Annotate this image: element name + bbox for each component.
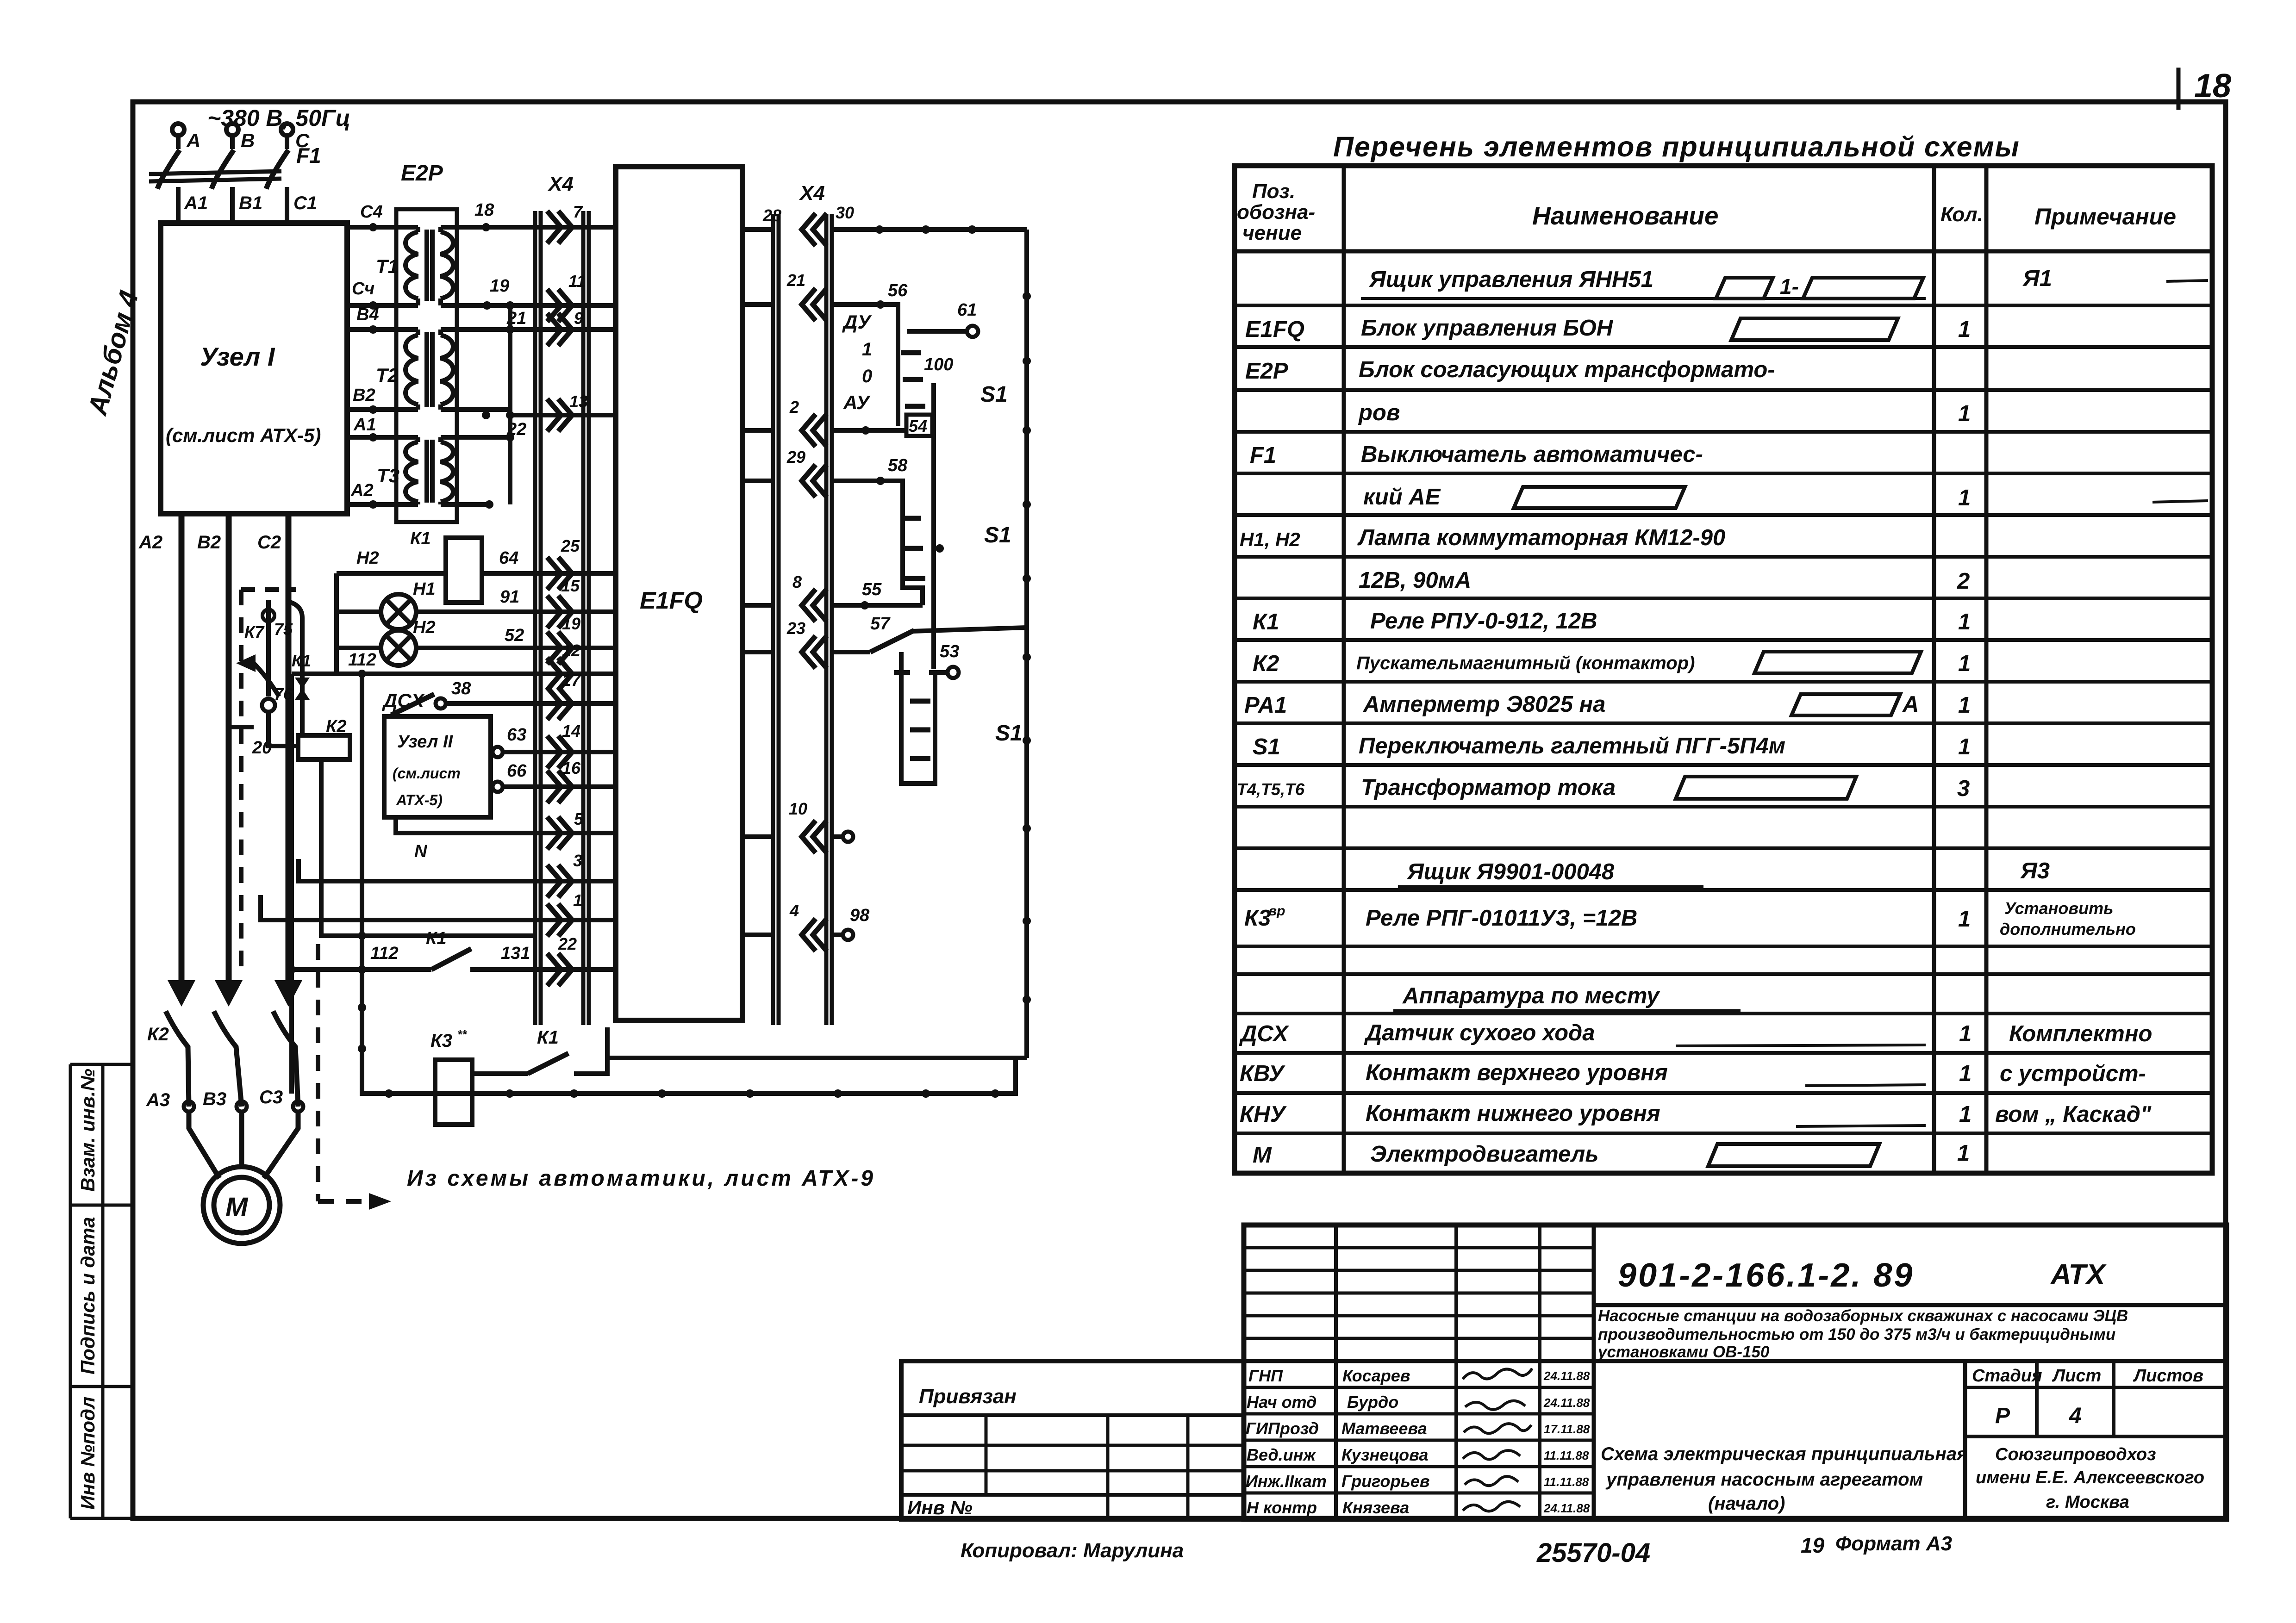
svg-text:**: ** <box>457 1027 468 1041</box>
svg-text:Р: Р <box>1995 1404 2010 1428</box>
svg-text:112: 112 <box>370 944 399 963</box>
table header texts <box>1237 180 2176 244</box>
svg-text:Узел II: Узел II <box>397 732 454 752</box>
breaker F1 linkage bars <box>149 171 281 181</box>
svg-text:К2: К2 <box>147 1024 169 1045</box>
pin 14 chevron / wire 63 <box>547 736 572 768</box>
node 19 <box>483 301 491 310</box>
svg-text:кий АЕ: кий АЕ <box>1363 485 1441 510</box>
node A2 <box>369 500 377 509</box>
terminal 61 <box>907 329 967 334</box>
node 22 <box>482 411 490 419</box>
svg-text:22: 22 <box>558 934 577 953</box>
svg-text:0: 0 <box>862 366 872 386</box>
svg-text:11.11.88: 11.11.88 <box>1544 1449 1589 1462</box>
svg-text:А1: А1 <box>184 193 208 213</box>
svg-text:Перечень элементов принципиа: Перечень элементов принципиальной схемы <box>1333 131 2020 162</box>
S1 group 3 path <box>901 652 935 784</box>
node C4 bottom <box>369 301 377 310</box>
terminal C <box>281 124 293 149</box>
svg-text:Контакт верхнего уровня: Контакт верхнего уровня <box>1366 1060 1668 1085</box>
contactor K2 blade A <box>166 1011 189 1107</box>
svg-text:Кузнецова: Кузнецова <box>1341 1445 1428 1464</box>
junctions on bottom bus <box>385 1089 999 1098</box>
pin 11 chevron <box>547 289 572 322</box>
svg-text:18: 18 <box>474 200 494 220</box>
pin 25 chevron / wire H2-K1-64 <box>547 557 572 590</box>
svg-text:обозна-: обозна- <box>1237 201 1315 224</box>
svg-text:N: N <box>414 842 428 861</box>
svg-text:1-: 1- <box>1780 274 1799 298</box>
pin 7 chevron <box>547 211 572 243</box>
svg-text:Е2Р: Е2Р <box>1245 359 1288 384</box>
svg-text:Союзгипроводхоз: Союзгипроводхоз <box>1995 1445 2156 1464</box>
svg-text:38: 38 <box>451 679 471 698</box>
svg-text:С2: С2 <box>257 532 281 553</box>
svg-text:г. Москва: г. Москва <box>2046 1492 2129 1512</box>
svg-text:М: М <box>225 1192 249 1222</box>
dashed control link vertical <box>239 590 243 972</box>
svg-text:28: 28 <box>762 206 781 225</box>
svg-text:53: 53 <box>940 642 959 661</box>
svg-text:Т4,Т5,Т6: Т4,Т5,Т6 <box>1237 780 1305 799</box>
svg-text:Подпись и дата: Подпись и дата <box>77 1217 99 1374</box>
svg-text:S1: S1 <box>984 523 1011 547</box>
svg-text:18: 18 <box>2194 68 2231 105</box>
pin 12 chevron / wire 112 <box>547 658 572 690</box>
svg-text:1: 1 <box>1958 907 1971 932</box>
block Uzel I <box>161 223 347 514</box>
svg-text:М: М <box>1253 1143 1272 1168</box>
svg-text:S1: S1 <box>1253 734 1280 759</box>
phase wire B2 <box>226 514 232 990</box>
svg-text:Из схемы автоматики, лист: Из схемы автоматики, лист АТХ-9 <box>407 1166 875 1191</box>
wire B1 down to node I <box>230 187 235 223</box>
svg-text:57: 57 <box>870 614 891 634</box>
mechanical link arrow <box>243 663 279 696</box>
svg-text:2: 2 <box>789 398 799 417</box>
coil K2 return wire down <box>321 759 537 936</box>
svg-text:В2: В2 <box>197 532 221 553</box>
svg-text:А2: А2 <box>138 532 162 553</box>
pin 5 chevron / wire N <box>547 817 572 849</box>
lamp H2 <box>381 630 416 665</box>
svg-text:Выключатель автоматичес: Выключатель автоматичес- <box>1361 442 1703 467</box>
stage/sheet header <box>1972 1366 2203 1428</box>
pin 3 chevron / wire 3 <box>547 865 572 897</box>
svg-text:55: 55 <box>862 580 882 599</box>
blank value parallelogram row6 <box>1514 487 1685 508</box>
pin 15 chevron / lamp H1 wire 91 <box>547 596 572 628</box>
svg-text:56: 56 <box>888 281 908 300</box>
svg-text:Аппаратура по месту: Аппаратура по месту <box>1402 983 1660 1008</box>
node B2 <box>369 405 377 414</box>
pin 10 chevron / terminal wire <box>802 821 827 853</box>
svg-text:К1: К1 <box>292 651 311 670</box>
svg-text:112: 112 <box>348 650 376 670</box>
blank value parallelogram row10 <box>1754 652 1921 673</box>
pin 9 chevron <box>547 313 572 346</box>
transformer T3 <box>347 437 510 504</box>
svg-text:Инв №: Инв № <box>907 1497 973 1518</box>
svg-text:16: 16 <box>562 759 581 777</box>
svg-text:1: 1 <box>1957 1141 1970 1166</box>
block E2P outline <box>396 209 457 522</box>
svg-text:13: 13 <box>569 392 588 411</box>
svg-text:15: 15 <box>561 576 580 595</box>
blank value parallelogram row1b <box>1803 278 1923 298</box>
svg-text:75: 75 <box>274 620 293 639</box>
svg-text:Реле РПГ-01011УЗ, =12В: Реле РПГ-01011УЗ, =12В <box>1366 906 1637 931</box>
svg-text:Ящик управления ЯНН51: Ящик управления ЯНН51 <box>1368 267 1653 292</box>
current transformer T6 <box>262 699 275 712</box>
svg-text:А: А <box>186 130 200 151</box>
blank value parallelogram row13 <box>1676 777 1856 799</box>
svg-text:1: 1 <box>1958 609 1971 634</box>
svg-text:Я3: Я3 <box>2020 858 2050 883</box>
svg-text:5: 5 <box>574 809 584 828</box>
pin 16 chevron / wire 66 <box>547 771 572 803</box>
tick mark 20 <box>229 725 254 729</box>
svg-text:Электродвигатель: Электродвигатель <box>1370 1142 1599 1167</box>
svg-text:1: 1 <box>1958 317 1971 342</box>
branch down vertical to bottom bus <box>289 674 294 1094</box>
breaker F1 pole B blade <box>212 150 234 189</box>
svg-text:К2: К2 <box>1253 651 1279 676</box>
svg-text:Косарев: Косарев <box>1342 1366 1410 1385</box>
pin 1 chevron / wire 1 <box>547 904 572 936</box>
pin 17 chevron / sensor DSKh wire 38 <box>547 687 572 720</box>
svg-text:управления насосным агрегато: управления насосным агрегатом <box>1605 1469 1923 1490</box>
svg-text:Сч: Сч <box>352 279 374 298</box>
svg-text:Привязан: Привязан <box>919 1385 1017 1408</box>
svg-text:А1: А1 <box>353 415 376 435</box>
svg-text:24.11.88: 24.11.88 <box>1543 1396 1590 1410</box>
svg-text:чение: чение <box>1242 222 1302 244</box>
node B4 <box>369 325 377 334</box>
lamp H1 <box>381 594 416 629</box>
svg-text:(см.лист: (см.лист <box>393 765 461 782</box>
contact K1 lower <box>472 1071 528 1076</box>
svg-text:Поз.: Поз. <box>1252 180 1295 203</box>
project description <box>1597 1307 2128 1361</box>
small revision grid <box>1334 1225 1338 1361</box>
svg-text:19: 19 <box>1801 1533 1825 1557</box>
svg-text:КНУ: КНУ <box>1240 1102 1287 1127</box>
breaker F1 pole C blade <box>266 150 288 189</box>
svg-text:В1: В1 <box>239 193 262 213</box>
pin 4 chevron / wire 98 <box>802 919 827 951</box>
bottom bus lower with junctions <box>360 1058 1016 1094</box>
svg-text:А2: А2 <box>350 481 374 500</box>
svg-text:1: 1 <box>1958 693 1971 718</box>
table rows text <box>1237 266 2208 1168</box>
node A3 <box>184 1101 194 1112</box>
svg-text:23: 23 <box>786 619 805 638</box>
svg-text:АТХ: АТХ <box>2050 1259 2107 1291</box>
svg-text:29: 29 <box>786 448 805 466</box>
svg-text:Я1: Я1 <box>2022 266 2052 291</box>
motor M <box>203 1167 280 1244</box>
signature table texts <box>1246 1366 1590 1517</box>
terminal A <box>172 124 184 149</box>
svg-text:К1: К1 <box>1253 609 1279 634</box>
blank value parallelogram row1a <box>1716 278 1773 298</box>
svg-text:66: 66 <box>507 761 527 781</box>
contactor K2 blade C <box>273 1011 298 1107</box>
contactor coil K2 <box>268 712 298 746</box>
svg-text:Примечание: Примечание <box>2034 204 2176 230</box>
svg-text:ДСХ: ДСХ <box>1239 1021 1290 1046</box>
node 18 <box>482 223 490 231</box>
right stage columns <box>1963 1361 1967 1519</box>
phase wire C2 <box>286 514 292 990</box>
svg-text:100: 100 <box>924 355 953 374</box>
svg-text:14: 14 <box>562 721 580 740</box>
svg-text:25570-04: 25570-04 <box>1536 1538 1650 1568</box>
svg-text:12: 12 <box>562 641 580 660</box>
blank value parallelogram row22 <box>1708 1144 1879 1166</box>
switch S1 selector DU/AU bracket <box>885 305 898 426</box>
svg-text:63: 63 <box>507 725 526 745</box>
svg-text:ГИПрозд: ГИПрозд <box>1246 1419 1319 1438</box>
svg-text:4: 4 <box>2069 1404 2082 1428</box>
svg-text:21: 21 <box>786 271 805 290</box>
svg-text:ров: ров <box>1358 400 1400 425</box>
wire: right S1 bus vertical <box>1024 230 1029 1058</box>
pin 8 chevron / wire 55 <box>802 589 827 622</box>
svg-text:64: 64 <box>499 548 518 568</box>
relay coil K1 <box>446 538 482 603</box>
contact K1 bowtie on aux line <box>288 602 302 735</box>
pin 21 chevron / wire 56 <box>802 288 827 321</box>
svg-text:В4: В4 <box>356 305 379 324</box>
svg-text:КВУ: КВУ <box>1240 1061 1285 1086</box>
svg-text:Е1FQ: Е1FQ <box>1245 317 1304 342</box>
svg-text:901-2-166.1-2. 89: 901-2-166.1-2. 89 <box>1618 1257 1914 1294</box>
svg-text:1: 1 <box>573 891 582 910</box>
svg-text:Кол.: Кол. <box>1940 203 1983 226</box>
sheet frame border <box>133 102 2226 1518</box>
current transformer T5 <box>262 609 275 622</box>
connector X4 left column <box>535 211 589 1025</box>
svg-text:Н1: Н1 <box>413 579 436 599</box>
attachment box bottom-left <box>901 1361 1244 1519</box>
dashed wire to automation sheet <box>318 944 365 1201</box>
svg-text:Х4: Х4 <box>547 173 574 195</box>
S1 group 2 bracket <box>885 481 923 605</box>
svg-text:1: 1 <box>1958 734 1971 759</box>
svg-text:30: 30 <box>836 203 854 222</box>
svg-text:РА1: РА1 <box>1244 693 1287 718</box>
svg-text:11.11.88: 11.11.88 <box>1544 1475 1589 1489</box>
node A1 <box>369 433 377 442</box>
svg-text:установками ОВ-150: установками ОВ-150 <box>1597 1343 1770 1361</box>
terminal B <box>226 124 238 149</box>
svg-text:Н2: Н2 <box>356 548 379 568</box>
svg-text:7: 7 <box>573 202 583 221</box>
svg-text:Реле РПУ-0-912, 12В: Реле РПУ-0-912, 12В <box>1370 609 1597 634</box>
svg-text:61: 61 <box>957 300 977 320</box>
wire C1 down to node I <box>285 187 289 223</box>
node C4 top <box>369 223 377 231</box>
svg-text:Х4: Х4 <box>799 182 825 205</box>
svg-text:дополнительно: дополнительно <box>2000 920 2136 939</box>
svg-text:В3: В3 <box>203 1089 226 1109</box>
svg-text:Узел I: Узел I <box>200 342 275 371</box>
svg-text:91: 91 <box>500 587 519 607</box>
block Uzel II <box>384 716 491 817</box>
svg-text:Ящик Я9901-00048: Ящик Я9901-00048 <box>1406 859 1615 884</box>
svg-text:Схема электрическая принципиал: Схема электрическая принципиальная <box>1601 1444 1968 1464</box>
svg-text:ГНП: ГНП <box>1248 1366 1283 1385</box>
svg-text:Датчик сухого хода: Датчик сухого хода <box>1364 1020 1595 1045</box>
svg-text:3: 3 <box>573 851 582 870</box>
svg-text:1: 1 <box>1958 401 1971 426</box>
pin 19 chevron / lamp H2 wire 52 <box>547 632 572 664</box>
svg-text:К1: К1 <box>537 1027 559 1048</box>
svg-text:Листов: Листов <box>2133 1366 2203 1386</box>
svg-text:с устройст-: с устройст- <box>2000 1061 2146 1086</box>
svg-text:Нач отд: Нач отд <box>1247 1393 1316 1412</box>
svg-text:2: 2 <box>1957 569 1970 594</box>
selector contact dashes <box>901 353 925 406</box>
svg-text:Пускательмагнитный (контактор: Пускательмагнитный (контактор) <box>1356 653 1695 673</box>
svg-text:24.11.88: 24.11.88 <box>1543 1501 1590 1515</box>
node 21 <box>506 325 514 334</box>
svg-text:Лист: Лист <box>2052 1366 2101 1386</box>
svg-text:Установить: Установить <box>2004 899 2114 918</box>
svg-text:Комплектно: Комплектно <box>2009 1021 2152 1046</box>
svg-text:имени Е.Е. Алексеевского: имени Е.Е. Алексеевского <box>1976 1468 2204 1487</box>
svg-text:10: 10 <box>789 799 807 818</box>
svg-text:(начало): (начало) <box>1708 1493 1785 1514</box>
svg-text:S1: S1 <box>995 721 1023 746</box>
svg-text:58: 58 <box>888 456 908 475</box>
svg-text:F1: F1 <box>1250 443 1276 468</box>
svg-text:Лампа коммутаторная КМ12-9: Лампа коммутаторная КМ12-90 <box>1357 525 1725 550</box>
wire A1 down to node I <box>176 187 181 223</box>
breaker F1 pole A blade <box>157 150 180 189</box>
dashed box top edge <box>241 587 296 592</box>
pin 13 chevron <box>547 399 572 431</box>
table grid <box>1235 166 2212 1173</box>
svg-text:производительностью от 150 до: производительностью от 150 до 375 м3/ч и… <box>1598 1325 2115 1343</box>
svg-text:К3: К3 <box>1244 906 1271 931</box>
svg-text:131: 131 <box>501 944 530 963</box>
svg-text:Стадия: Стадия <box>1972 1366 2042 1386</box>
node B3 <box>237 1101 247 1112</box>
pin 2 chevron / wire 54 <box>802 414 827 447</box>
svg-text:1: 1 <box>1959 1061 1972 1086</box>
svg-text:Блок согласующих трансфо: Блок согласующих трансформато- <box>1359 357 1775 382</box>
svg-text:Бурдо: Бурдо <box>1347 1393 1398 1412</box>
sheet title <box>1601 1444 1968 1514</box>
svg-text:Т3: Т3 <box>377 465 399 486</box>
signatures squiggles <box>1463 1368 1532 1511</box>
svg-text:К3: К3 <box>430 1031 452 1051</box>
contact blade 57 <box>870 630 914 652</box>
junctions on wire 30 <box>875 225 884 234</box>
svg-text:Вед.инж: Вед.инж <box>1247 1445 1316 1464</box>
contactor K2 blade B <box>214 1011 242 1107</box>
connector X4 right column <box>773 214 832 1025</box>
svg-text:Формат А3: Формат А3 <box>1835 1532 1952 1555</box>
svg-text:24.11.88: 24.11.88 <box>1543 1369 1590 1383</box>
svg-text:А: А <box>1902 692 1919 717</box>
svg-text:25: 25 <box>561 536 580 555</box>
motor feeder converging wires <box>189 1112 219 1178</box>
svg-text:11: 11 <box>568 272 586 291</box>
svg-text:С3: С3 <box>259 1087 283 1107</box>
svg-text:54: 54 <box>909 417 927 435</box>
pin 28/30 chevron wire top <box>802 213 827 246</box>
svg-text:8: 8 <box>792 572 802 591</box>
svg-text:3: 3 <box>1957 776 1970 801</box>
secondary bus vertical <box>508 305 512 504</box>
phase arrowheads <box>168 980 302 1007</box>
svg-text:Е1FQ: Е1FQ <box>640 587 703 614</box>
blank value parallelogram row11 <box>1791 694 1900 715</box>
transformer T2 <box>347 330 616 415</box>
svg-text:Князева: Князева <box>1342 1498 1409 1517</box>
svg-text:1: 1 <box>862 339 872 360</box>
page number 18 top right <box>2178 68 2231 110</box>
pin 23 chevron / wire 57 <box>802 636 827 668</box>
junctions on secondary bus <box>506 411 514 419</box>
svg-text:вом „ Каскад": вом „ Каскад" <box>1995 1102 2152 1127</box>
svg-text:76: 76 <box>274 684 293 703</box>
svg-text:4: 4 <box>789 901 799 920</box>
svg-text:1: 1 <box>1959 1102 1972 1127</box>
svg-text:Копировал: Марулина: Копировал: Марулина <box>961 1539 1184 1562</box>
svg-text:Т1: Т1 <box>376 255 399 277</box>
contact K1 on wire 131 <box>431 949 471 970</box>
svg-text:С4: С4 <box>360 202 383 222</box>
pin 29 chevron / wire 58 <box>802 465 827 497</box>
junction on wire 131 <box>287 965 296 974</box>
svg-text:F1: F1 <box>296 143 321 168</box>
svg-text:9: 9 <box>574 309 583 328</box>
svg-text:17: 17 <box>562 671 581 690</box>
svg-text:К7: К7 <box>244 622 265 641</box>
phase wire A2 <box>179 514 185 990</box>
svg-text:А3: А3 <box>146 1090 170 1110</box>
svg-text:Амперметр Э8025: Амперметр Э8025 на <box>1363 692 1605 717</box>
organization <box>1976 1445 2204 1512</box>
svg-text:вр: вр <box>1268 903 1285 919</box>
svg-text:Григорьев: Григорьев <box>1341 1472 1430 1491</box>
node C3 <box>293 1101 303 1112</box>
svg-text:1: 1 <box>1959 1021 1972 1046</box>
svg-text:АТХ-5): АТХ-5) <box>396 792 443 808</box>
svg-text:Н контр: Н контр <box>1247 1498 1317 1517</box>
signature rows <box>1244 1386 1594 1389</box>
svg-text:Взам. инв.№: Взам. инв.№ <box>77 1069 99 1192</box>
svg-text:12В, 90мА: 12В, 90мА <box>1359 568 1471 593</box>
svg-text:17.11.88: 17.11.88 <box>1544 1422 1590 1436</box>
svg-text:С1: С1 <box>293 193 317 213</box>
block E1FQ <box>616 167 742 1020</box>
svg-text:Н1, Н2: Н1, Н2 <box>1240 529 1300 550</box>
svg-text:К2: К2 <box>326 717 347 736</box>
svg-text:19: 19 <box>562 614 580 633</box>
svg-text:АУ: АУ <box>843 392 871 413</box>
svg-text:Наименование: Наименование <box>1532 201 1718 230</box>
svg-text:Т2: Т2 <box>376 364 399 386</box>
svg-text:К1: К1 <box>410 529 431 548</box>
svg-text:S1: S1 <box>980 382 1008 407</box>
